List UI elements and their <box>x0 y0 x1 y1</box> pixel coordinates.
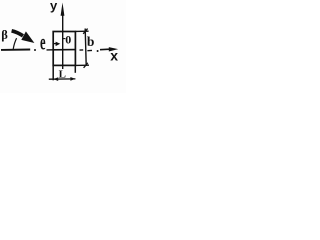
svg-text:b: b <box>87 34 95 49</box>
velocity vector beta arrow <box>12 31 35 43</box>
svg-text:β: β <box>1 28 8 42</box>
dimension b extension top <box>75 30 88 32</box>
dimension L extension left <box>52 66 54 81</box>
eccentricity arrow e <box>53 42 60 47</box>
rectangle plate <box>53 32 75 66</box>
svg-text:x: x <box>110 47 118 63</box>
dimension b tick bottom <box>84 63 88 68</box>
svg-text:L: L <box>59 68 66 80</box>
y-axis <box>61 3 65 70</box>
x-axis <box>1 47 118 52</box>
tick at origin <box>63 38 66 40</box>
dimension b extension bottom <box>75 64 89 66</box>
svg-text:0: 0 <box>65 33 71 47</box>
dimension L line <box>49 77 76 81</box>
angle arc <box>13 38 16 49</box>
dimension L extension right <box>74 66 76 73</box>
dimension b line <box>85 29 86 66</box>
svg-text:e: e <box>40 30 46 56</box>
svg-text:y: y <box>50 0 58 13</box>
dimension b tick top <box>83 29 87 34</box>
